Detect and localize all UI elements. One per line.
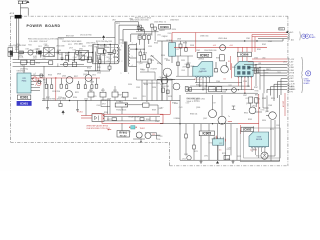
sv comp a [177, 62, 180, 66]
wire cn fan row 11 [271, 87, 288, 96]
svg-text:4: 4 [132, 65, 133, 67]
junction p1 [55, 77, 56, 78]
mid v1 [180, 41, 182, 44]
svg-text:C911 R910 2.2: C911 R910 2.2 [86, 43, 98, 45]
svg-text:POWER BOARD: POWER BOARD [27, 24, 61, 28]
svg-text:D914: D914 [89, 90, 93, 92]
gnd rail a [46, 106, 49, 109]
svg-text:C943: C943 [33, 57, 37, 59]
svg-text:C943: C943 [268, 41, 272, 43]
red transistor mark a [33, 77, 37, 81]
wire lr h161 [240, 160, 280, 162]
red wire lr left [160, 114, 163, 116]
wire q906 up [212, 95, 214, 110]
transistor Q913 [173, 83, 180, 90]
rail drop a [47, 101, 49, 107]
wire cn pin row 4 [248, 66, 287, 68]
svg-text:C941: C941 [246, 38, 250, 40]
svg-text:Q964: Q964 [252, 105, 256, 107]
svg-text:C908: C908 [181, 70, 185, 72]
comp row60 b [49, 61, 53, 65]
IC902 pin drop 5 [208, 77, 210, 82]
wire cn fan row 10 [274, 84, 287, 101]
svg-text:5: 5 [132, 56, 133, 58]
circled H connector ref [306, 71, 311, 76]
ctl v1 [51, 78, 53, 85]
svg-text:D915: D915 [38, 46, 42, 48]
IC906 cyan body [235, 61, 254, 76]
red v left ic906 [231, 63, 233, 78]
encl v left [239, 130, 241, 161]
svg-text:RELAY DRIVE: RELAY DRIVE [129, 115, 141, 118]
svg-text:C938: C938 [177, 39, 181, 41]
transistor Q902 [85, 75, 92, 82]
svg-text:L957: L957 [213, 102, 217, 104]
IC902 regulator cyan [193, 62, 213, 77]
wire loop3 h [123, 29, 145, 31]
svg-text:C959: C959 [136, 87, 140, 89]
bus h3 [186, 89, 254, 91]
border bottom-right [170, 165, 289, 167]
diode D905 [138, 36, 141, 40]
svg-text:IC901: IC901 [20, 102, 28, 106]
red caution box [102, 114, 163, 123]
IC601 cyan body [17, 73, 31, 93]
svg-text:R958: R958 [104, 112, 108, 114]
transistor Q904 [66, 91, 73, 98]
red wire rect v [169, 101, 171, 114]
svg-text:R907 C907: R907 C907 [66, 35, 74, 37]
red v lr a [258, 94, 260, 132]
svg-text:D950: D950 [164, 58, 168, 60]
wire cn fan row 9 [278, 81, 288, 98]
rs h112 [256, 111, 262, 113]
wire sec drop 2 [146, 80, 148, 101]
wire HV rail top [93, 44, 118, 46]
red v ic906 a [237, 47, 239, 62]
lr comp a [162, 88, 165, 92]
caution v1 [107, 117, 109, 121]
bm v5 [230, 124, 232, 156]
wire upper h376 a [58, 37, 102, 39]
junction hv [110, 44, 111, 45]
svg-text:D915: D915 [157, 34, 161, 36]
IC902 pin drop 2 [199, 77, 201, 86]
sv b [187, 56, 189, 76]
transformer T901 secondary winding [128, 45, 130, 67]
relay coil K2 [145, 133, 151, 139]
diode D913 [141, 28, 144, 31]
svg-text:C945: C945 [254, 58, 258, 60]
svg-text:D930: D930 [262, 120, 266, 122]
svg-text:R936: R936 [118, 49, 122, 51]
svg-text:R955: R955 [244, 112, 248, 114]
IC906 label box [237, 52, 251, 56]
cap C910 wire b [109, 54, 111, 64]
rt h72 [140, 71, 155, 73]
junction rail d [85, 100, 86, 101]
svg-text:D908: D908 [57, 74, 61, 76]
svg-text:D910: D910 [62, 97, 66, 99]
junction grid1 [199, 86, 200, 87]
IC906 pin drop 4 [247, 76, 249, 86]
fuse F901 body b [23, 1, 27, 4]
wire ic601 right4 [34, 90, 40, 92]
svg-text:Q905 2SC2120: Q905 2SC2120 [160, 79, 172, 81]
sec drop x172 [171, 80, 173, 101]
IC903 pin drop 3 [258, 148, 260, 158]
IC906 pin drop 5 [250, 76, 252, 89]
wire ic601 right1 [34, 75, 44, 77]
IC906 inner pads [237, 66, 250, 75]
wire relay v2 [156, 133, 158, 139]
svg-text:L922: L922 [219, 143, 223, 145]
bm v4 [193, 149, 195, 160]
svg-text:F6654: F6654 [22, 80, 27, 82]
red v ic905 b [225, 139, 227, 142]
wire bottom drop 2 [208, 124, 210, 161]
wire h795 ext [157, 79, 195, 81]
IC601 label box [17, 95, 30, 100]
warning stem low [62, 113, 64, 115]
bm v2 [185, 138, 187, 156]
wire inlet down [20, 4, 22, 16]
caution v5 [155, 117, 157, 121]
svg-text:D924: D924 [128, 84, 132, 86]
cap C910 pole b [108, 53, 113, 55]
svg-text:R909: R909 [95, 46, 99, 48]
svg-text:D909: D909 [107, 99, 111, 101]
red dot th a [129, 127, 130, 128]
cap C901 bar b [37, 51, 39, 55]
ctl v4 [91, 78, 93, 85]
svg-text:IC902: IC902 [201, 69, 206, 71]
snx v10 [109, 69, 111, 71]
red ry left [108, 129, 111, 131]
svg-text:R959: R959 [152, 110, 156, 112]
wire ic904 h [136, 31, 159, 33]
ctl v6 [47, 84, 49, 101]
junction sec2 [144, 49, 145, 50]
mid comp a [179, 44, 182, 48]
rt v5 [154, 72, 156, 80]
comp r903 [76, 51, 79, 55]
wire loop2 v [118, 25, 120, 44]
capacitor C904 box [21, 60, 27, 64]
resistor R905 [65, 55, 68, 60]
wire loop4 v [130, 34, 132, 42]
rs v2 [266, 96, 268, 113]
red h lr [238, 123, 259, 125]
svg-text:R916: R916 [48, 75, 52, 77]
svg-text:0.6: 0.6 [223, 79, 225, 81]
wire pc902 down [121, 107, 123, 114]
line filter LF901 [44, 48, 55, 57]
connector CN901 lower [8, 52, 13, 56]
wire v g [87, 53, 89, 60]
svg-text:R908: R908 [36, 63, 40, 65]
svg-text:A: A [306, 34, 308, 38]
svg-text:L903: L903 [112, 19, 116, 21]
svg-text:D911: D911 [97, 67, 101, 69]
IC903 cyan body [249, 132, 269, 147]
wire low66 v [57, 63, 59, 66]
svg-text:Q964: Q964 [40, 56, 44, 58]
svg-text:L957: L957 [42, 58, 46, 60]
svg-text:SE135N: SE135N [256, 139, 263, 141]
comp rb1 [249, 97, 253, 103]
pin hooks lower connector [288, 85, 289, 93]
svg-text:IC901: IC901 [20, 96, 29, 100]
svg-text:R961 C961 D931: R961 C961 D931 [187, 98, 200, 100]
svg-text:D921: D921 [232, 67, 236, 69]
comp c927 [148, 59, 151, 63]
svg-text:C918: C918 [90, 82, 94, 84]
sv h76 [176, 75, 193, 77]
cap C952 [217, 87, 222, 92]
IC601 pins right [31, 76, 34, 91]
junction r2 [256, 40, 257, 41]
warning triangle mid [102, 35, 105, 38]
svg-text:D950: D950 [142, 96, 146, 98]
T901 sec tap c [130, 57, 137, 59]
line filter L901 [28, 50, 33, 55]
boxrow vtop c [114, 86, 116, 92]
svg-text:R971: R971 [194, 151, 198, 153]
boxrow vtop a [90, 88, 92, 92]
IC905 pins top [214, 137, 223, 139]
d32 a [151, 24, 154, 27]
bm v1 [185, 124, 187, 134]
svg-text:D950: D950 [19, 55, 23, 57]
wire d921 v [215, 62, 217, 69]
resistor R902 drop [40, 53, 42, 58]
wire lr v1 [270, 120, 272, 161]
svg-text:Q929: Q929 [69, 48, 73, 50]
svg-text:C908: C908 [161, 36, 165, 38]
svg-text:R911: R911 [130, 19, 134, 21]
svg-text:Q964: Q964 [283, 61, 287, 63]
svg-text:L957: L957 [127, 131, 131, 133]
caution inner h2 [104, 120, 160, 122]
svg-text:AC DET: AC DET [282, 101, 285, 107]
svg-text:L922: L922 [198, 71, 202, 73]
cap C905 v [61, 53, 63, 59]
junction grid2 [202, 89, 203, 90]
svg-text:R917: R917 [74, 76, 78, 78]
junction g1 [88, 59, 89, 60]
wire drop c [68, 53, 70, 63]
wire bottom rail [180, 159, 280, 161]
connector CN901 upper [8, 48, 13, 52]
Q910 cross [262, 153, 267, 158]
wire ic905 down [217, 145, 219, 160]
wire cn pin row 7 [260, 75, 287, 77]
wire drop p3 [78, 81, 80, 84]
comp left a [185, 87, 188, 92]
wire relay h [133, 138, 145, 140]
svg-text:FB901: FB901 [266, 69, 271, 71]
bus h2 [190, 85, 250, 87]
wire inlet right [21, 7, 29, 9]
wire sec h49 [137, 48, 145, 50]
svg-text:D901: D901 [79, 48, 83, 50]
svg-text:R953: R953 [248, 119, 252, 121]
svg-text:R948: R948 [262, 98, 266, 100]
svg-text:DET: DET [290, 78, 293, 80]
junction sn1 [97, 44, 98, 45]
svg-text:C901: C901 [36, 49, 40, 51]
comp v1 [138, 22, 140, 31]
svg-text:LM7805: LM7805 [198, 59, 204, 61]
svg-text:R936: R936 [172, 102, 176, 104]
svg-text:IC902: IC902 [200, 53, 209, 57]
wire sec rail [157, 40, 283, 42]
IC904 label box [159, 25, 171, 30]
svg-text:Q906: Q906 [196, 107, 200, 109]
red wire +B rail [172, 32, 287, 34]
T901 sec tap d [130, 66, 137, 68]
svg-text:R936: R936 [82, 46, 86, 48]
AC inlet block [15, 15, 22, 19]
svg-text:D915: D915 [93, 96, 97, 98]
svg-text:C972: C972 [237, 156, 241, 158]
gnd rail b [76, 108, 79, 111]
comp v2 [141, 25, 143, 31]
relay RY box [143, 103, 149, 107]
wire v h [92, 60, 94, 64]
ground bottom a [200, 160, 203, 163]
cap C953 [232, 88, 237, 93]
border step [169, 142, 171, 166]
transistor Q908 [249, 107, 256, 114]
svg-text:Q929: Q929 [15, 47, 19, 49]
wire q903 up [225, 62, 227, 67]
svg-text:D912: D912 [116, 23, 120, 25]
svg-text:C943: C943 [79, 44, 83, 46]
junction lr3 [221, 123, 222, 124]
red wire rect out [163, 113, 170, 115]
wire row60 v1 [26, 60, 28, 63]
wire q905 rail [157, 79, 175, 81]
junction lr2 [212, 123, 213, 124]
red wire up q [38, 78, 40, 81]
cap C906 [81, 55, 84, 60]
border left [10, 16, 12, 142]
svg-text:R920: R920 [73, 97, 77, 99]
wire cn fan row 12 [267, 89, 287, 93]
svg-text:C957: C957 [187, 90, 191, 92]
transformer core b [125, 42, 127, 73]
red wire primary [31, 77, 100, 79]
junction b3 [244, 93, 245, 94]
svg-text:C946: C946 [243, 81, 247, 83]
svg-text:C916: C916 [58, 97, 62, 99]
sv a [177, 56, 179, 76]
svg-text:C921 R921 7.5: C921 R921 7.5 [154, 22, 166, 24]
svg-text:L901: L901 [26, 49, 30, 51]
svg-text:R963 10k: R963 10k [190, 114, 197, 116]
wire low66 ext [60, 66, 92, 68]
snx v3 [104, 45, 106, 51]
rt c1 [139, 52, 142, 55]
svg-text:C971: C971 [204, 156, 208, 158]
svg-text:R928: R928 [143, 52, 147, 54]
wire relay drop [140, 139, 142, 143]
wire row60 [13, 61, 49, 63]
wire ry down [157, 105, 159, 114]
junction +B end [286, 31, 288, 33]
red v q903 [229, 56, 231, 70]
svg-text:R936: R936 [253, 149, 257, 151]
IC906 pin drop 3 [244, 76, 246, 93]
red wire pc top [171, 33, 173, 43]
rt v2 [139, 55, 141, 62]
IC906 pin drop 2 [241, 76, 243, 89]
cap C905 bar a [61, 57, 64, 59]
ctl r3 [84, 85, 86, 89]
IC903 pin drop 2 [254, 148, 256, 155]
svg-text:TH902: TH902 [140, 128, 145, 130]
comp v3 [144, 30, 146, 34]
IC902 label box [197, 53, 212, 58]
cap C910 wire [109, 45, 111, 53]
wire mid rail [42, 100, 180, 102]
transistor Q911 [269, 112, 277, 120]
junction cn a [255, 64, 256, 65]
junction sn2 [104, 44, 105, 45]
svg-text:+8.6: +8.6 [229, 45, 232, 47]
boxrow vc [114, 97, 116, 101]
wire sec rail bend [282, 39, 284, 41]
svg-text:IC903: IC903 [257, 137, 262, 139]
svg-text:L957: L957 [138, 37, 142, 39]
svg-text:C944: C944 [216, 81, 220, 83]
svg-text:C943: C943 [182, 158, 186, 160]
fuse F901 body a [18, 1, 22, 4]
svg-text:L922: L922 [73, 50, 77, 52]
red wire ic905 [215, 136, 217, 139]
svg-text:R936: R936 [255, 90, 259, 92]
wire loop1 v [114, 22, 116, 45]
wire sec drop 3 [151, 80, 153, 101]
snx v5 [113, 45, 115, 51]
junction lr1 [179, 123, 180, 124]
wire drop p4 [96, 78, 98, 84]
red transistor mark b [37, 81, 41, 85]
svg-text:R975: R975 [270, 129, 274, 131]
mid v3 [180, 48, 182, 56]
wire bottom drop 3 [217, 124, 219, 161]
svg-text:R949: R949 [255, 94, 259, 96]
svg-text:R942: R942 [262, 44, 266, 46]
wire q905 down [166, 74, 168, 80]
wire cn pin row 2 [248, 61, 287, 63]
junction bridge [92, 52, 93, 53]
wire sec drop 1 [141, 80, 143, 101]
cn drop c [263, 70, 265, 93]
red v ic906 b [242, 47, 244, 62]
red v drop b [254, 37, 256, 52]
wire bottom drop 4 [225, 124, 227, 161]
rt c2 [147, 64, 150, 68]
wire loop2 h [119, 24, 142, 26]
svg-text:C960: C960 [121, 97, 125, 99]
svg-text:STR-F6654: STR-F6654 [17, 71, 26, 73]
photocoupler PC902 box [115, 103, 127, 107]
comp near cn top [279, 28, 285, 30]
comp C917 [60, 84, 62, 88]
